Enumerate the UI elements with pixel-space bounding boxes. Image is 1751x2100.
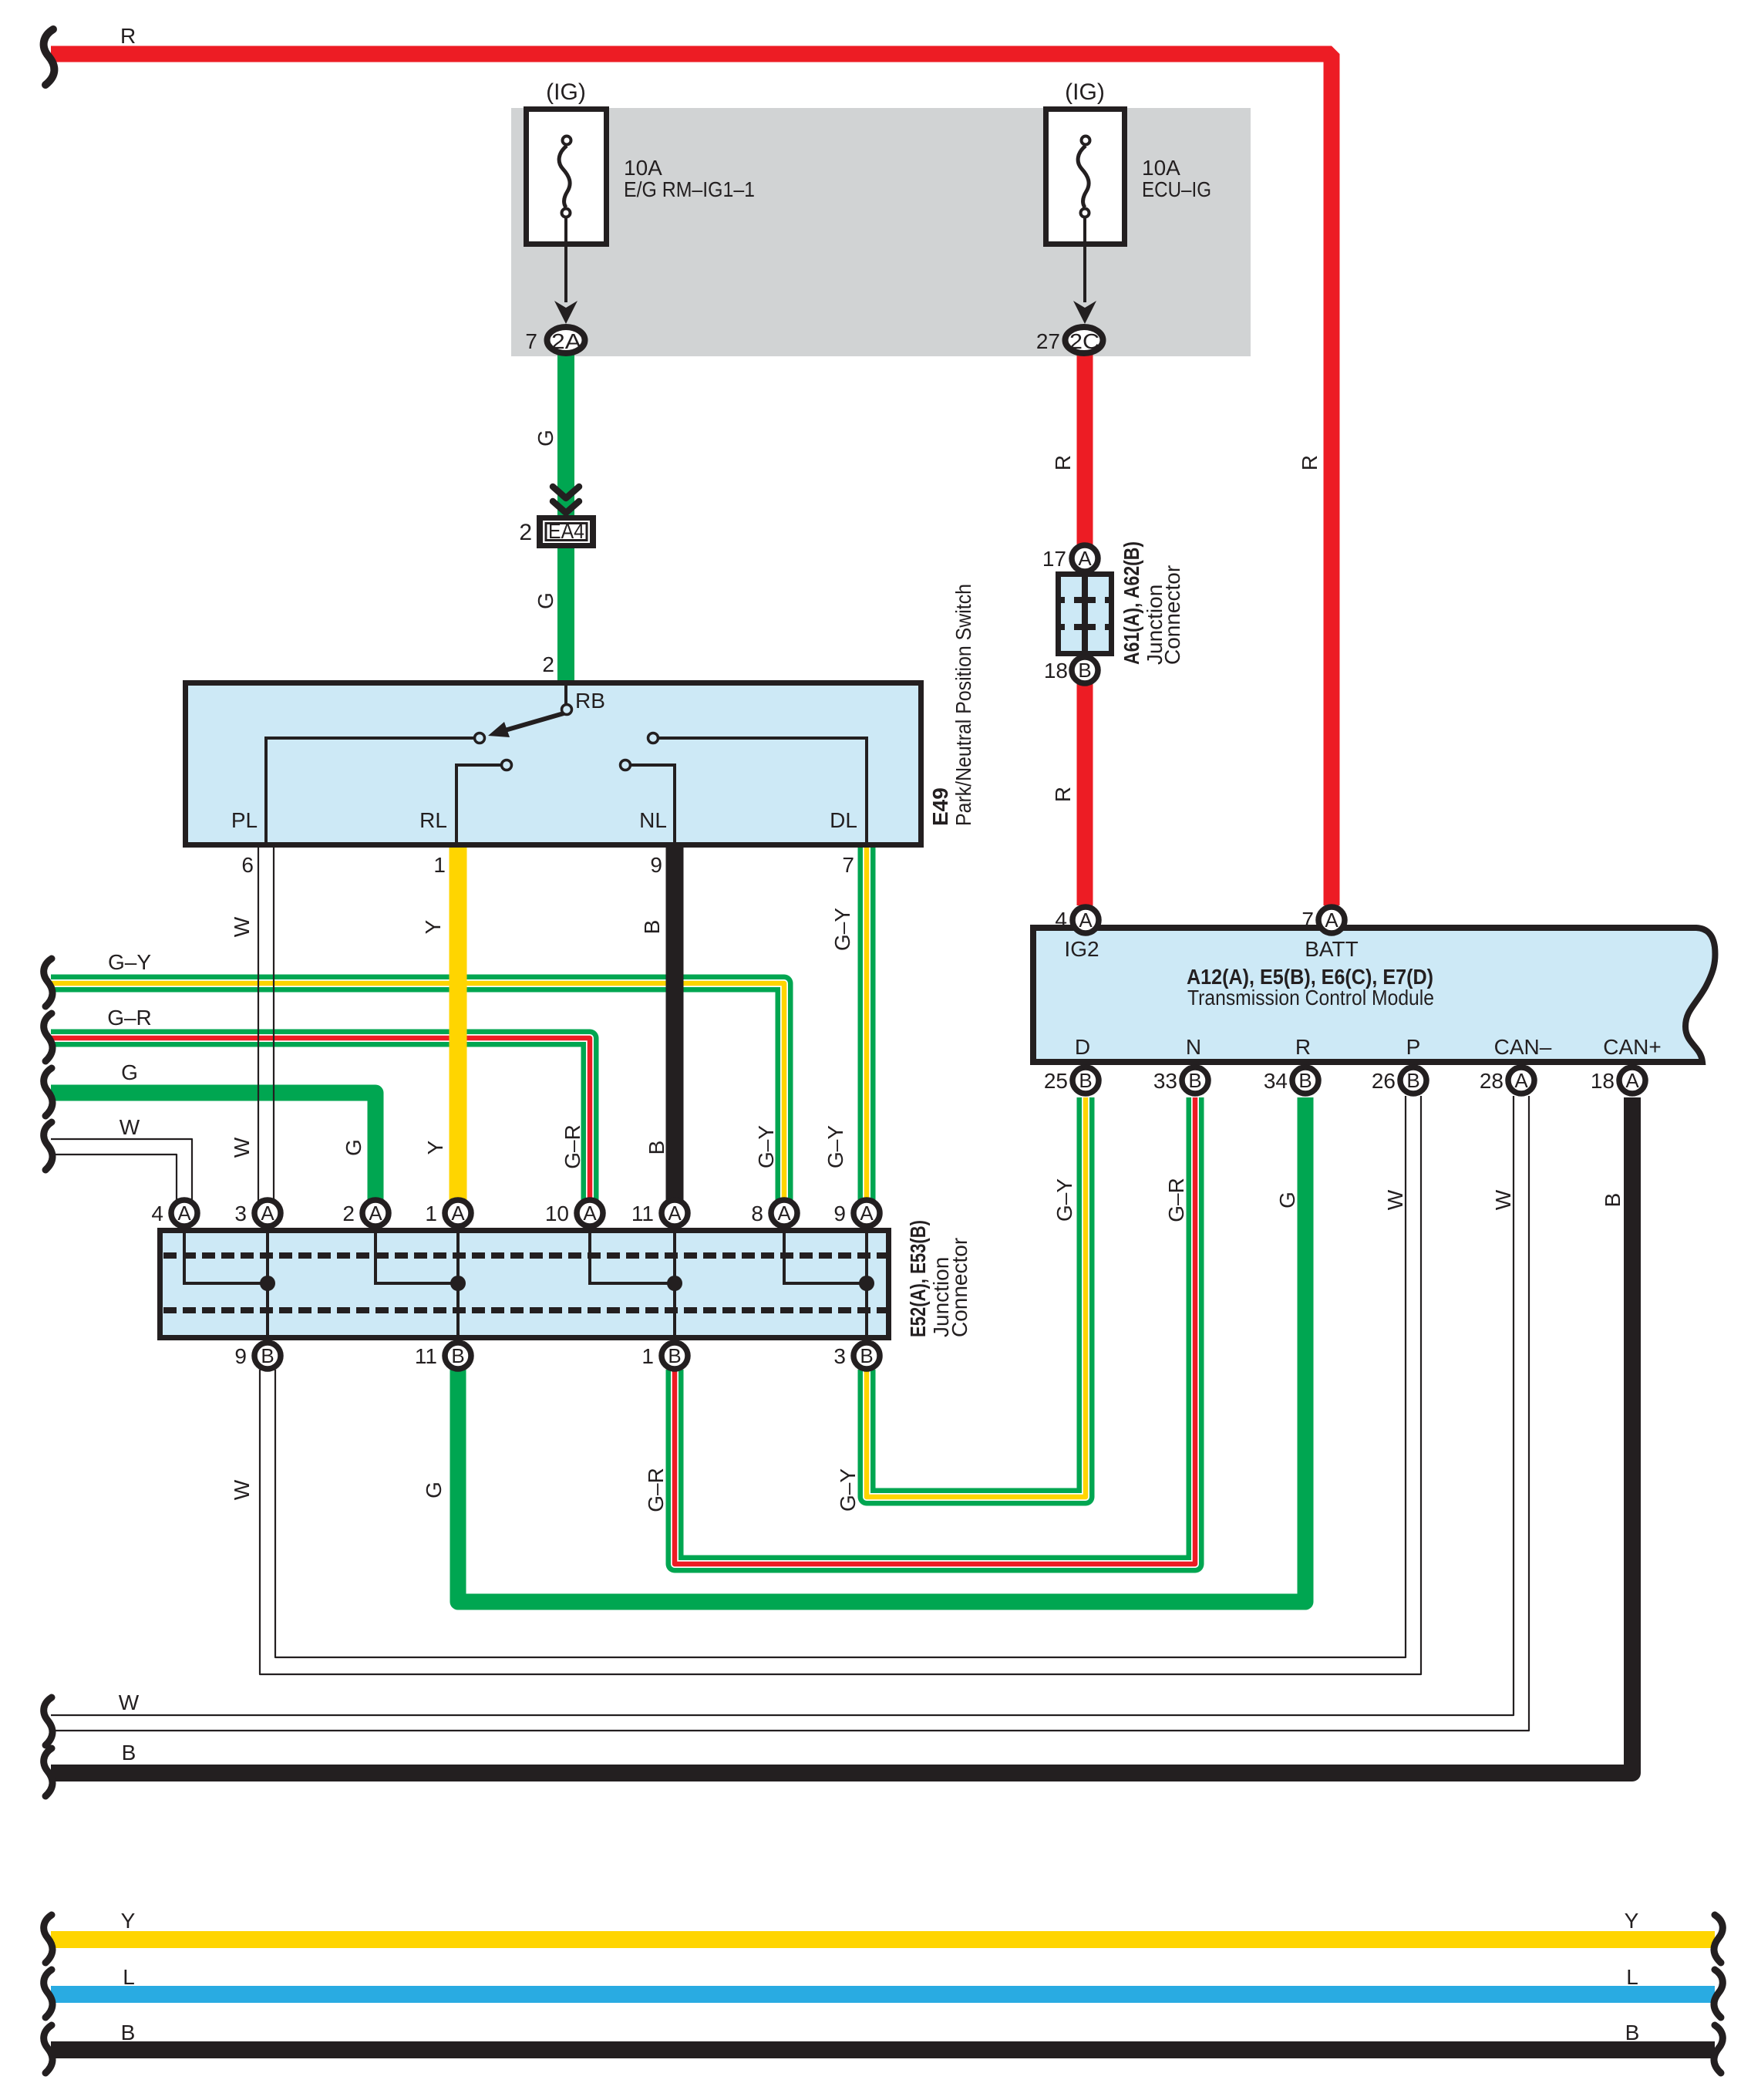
svg-text:33: 33 — [1153, 1069, 1177, 1093]
svg-text:26: 26 — [1372, 1069, 1396, 1093]
E52 junction dot (1A/11B) — [450, 1276, 466, 1291]
fuse 2 lead wire down — [1083, 217, 1086, 302]
Park/Neutral Position Switch E49 box — [186, 683, 921, 845]
svg-text:11: 11 — [631, 1202, 654, 1225]
wire W (harness to E52 pin 4A) — [51, 1139, 192, 1202]
pin 1 A (E52 top) — [445, 1200, 471, 1226]
E52 internal link pin 4A to junction — [184, 1233, 268, 1283]
svg-text:A: A — [777, 1202, 791, 1225]
break symbol, wire G left — [44, 1068, 52, 1116]
svg-text:A: A — [860, 1202, 874, 1225]
connector EA4 body — [537, 515, 596, 548]
svg-text:A: A — [668, 1202, 682, 1225]
wire G (harness to E52 pin 2A) — [51, 1093, 375, 1202]
svg-text:A: A — [1625, 1069, 1639, 1092]
svg-text:B: B — [261, 1344, 274, 1367]
svg-text:RL: RL — [419, 808, 447, 832]
A61 internal horizontal divider 2 — [1057, 624, 1113, 630]
svg-text:EA4: EA4 — [548, 519, 584, 543]
svg-text:RB: RB — [575, 689, 605, 713]
E52 junction dot (3A/9B) — [260, 1276, 275, 1291]
svg-text:E49: E49 — [928, 787, 952, 826]
svg-text:7: 7 — [842, 853, 854, 877]
E49 switch movable arm — [505, 713, 564, 730]
fuse 1 top terminal circle — [563, 137, 571, 145]
pin 9 B (E52 bottom) — [254, 1343, 281, 1369]
pin 9 A (E52 top) — [854, 1200, 880, 1226]
svg-text:G–Y: G–Y — [823, 1125, 847, 1168]
A61 internal horizontal divider 1 — [1057, 597, 1113, 603]
svg-text:(IG): (IG) — [1065, 79, 1105, 105]
svg-text:B: B — [1625, 2021, 1640, 2044]
svg-text:R: R — [1051, 455, 1075, 470]
svg-text:7: 7 — [525, 329, 537, 353]
E52 internal link pin 2A to junction — [375, 1233, 458, 1283]
svg-text:A: A — [583, 1202, 597, 1225]
svg-text:R: R — [120, 24, 136, 48]
svg-text:17: 17 — [1042, 547, 1066, 571]
svg-text:A: A — [1079, 908, 1093, 932]
svg-text:A: A — [261, 1202, 274, 1225]
pin 28 A (TCM CAN-) — [1508, 1067, 1534, 1094]
fuse 2 element S-curve — [1078, 146, 1089, 207]
fuse 10A E/G RM-IG1-1 body — [527, 110, 607, 244]
E52 internal wire pin 9A to pin 3B — [865, 1233, 868, 1337]
E52 internal bus dashed line upper — [163, 1252, 888, 1259]
pin 7 A (TCM BATT) — [1318, 907, 1345, 933]
fuse/relay block (gray) — [511, 108, 1251, 356]
fuse 10A ECU-IG body — [1046, 110, 1125, 244]
wire W (E52 pin 9B to TCM pin 26B) — [260, 1096, 1421, 1674]
svg-text:W: W — [1383, 1189, 1407, 1210]
svg-text:IG2: IG2 — [1064, 937, 1099, 961]
svg-text:2: 2 — [342, 1202, 355, 1225]
svg-text:B: B — [1188, 1069, 1201, 1092]
pin 8 A (E52 top) — [771, 1200, 797, 1226]
svg-text:Park/Neutral Position Switch: Park/Neutral Position Switch — [951, 584, 975, 826]
svg-text:R: R — [1298, 455, 1322, 470]
break symbol, bus L right — [1714, 1970, 1722, 2017]
pin 3 B (E52 bottom) — [854, 1343, 880, 1369]
svg-text:L: L — [123, 1965, 135, 1989]
svg-text:B: B — [451, 1344, 464, 1367]
svg-text:A: A — [451, 1202, 465, 1225]
pin 10 A (E52 top) — [577, 1200, 603, 1226]
pin 4 A (E52 top) — [171, 1200, 197, 1226]
wire B (TCM pin 18A to harness, CAN+) — [51, 1097, 1632, 1773]
E52 junction dot (9A/3B) — [859, 1276, 874, 1291]
svg-text:1: 1 — [433, 853, 446, 877]
E49 switch DL contact circle — [648, 733, 658, 743]
pin 11 A (E52 top) — [662, 1200, 688, 1226]
svg-text:B: B — [860, 1344, 873, 1367]
svg-text:1: 1 — [641, 1344, 654, 1368]
E49 switch contact wiring: RB stub — [564, 686, 567, 704]
svg-text:G–Y: G–Y — [108, 950, 151, 974]
svg-text:ECU–IG: ECU–IG — [1142, 177, 1211, 201]
break symbol, bus B left — [44, 2025, 52, 2073]
splice chevrons above EA4 — [553, 487, 579, 513]
svg-text:18: 18 — [1591, 1069, 1615, 1093]
E52 junction dot (11A/1B) — [667, 1276, 682, 1291]
svg-text:B: B — [668, 1344, 681, 1367]
svg-text:Y: Y — [121, 1909, 136, 1933]
svg-text:4: 4 — [151, 1202, 163, 1225]
svg-text:25: 25 — [1044, 1069, 1068, 1093]
svg-text:E52(A), E53(B): E52(A), E53(B) — [906, 1220, 930, 1337]
svg-text:Connector: Connector — [948, 1238, 971, 1337]
wire G (connector EA4 to E49 pin 2) — [557, 548, 574, 683]
E49 switch PL contact circle — [475, 733, 485, 743]
svg-text:27: 27 — [1036, 329, 1060, 353]
E52 internal link pin 8A to junction — [784, 1233, 867, 1283]
svg-text:G: G — [121, 1060, 138, 1084]
svg-text:(IG): (IG) — [546, 79, 586, 105]
pin 34 B (TCM R) — [1292, 1067, 1318, 1094]
break symbol, bus Y right — [1714, 1915, 1722, 1963]
svg-text:B: B — [1078, 659, 1091, 682]
svg-text:A: A — [369, 1202, 382, 1225]
fuse 2 bottom terminal circle — [1081, 209, 1089, 217]
svg-text:D: D — [1075, 1035, 1090, 1059]
svg-text:P: P — [1406, 1035, 1421, 1059]
svg-text:N: N — [1186, 1035, 1201, 1059]
wire R (main battery feed, top) — [51, 54, 1332, 905]
pin 4 A (TCM IG2) — [1072, 907, 1099, 933]
svg-text:B: B — [1298, 1069, 1312, 1092]
pin 11 B (E52 bottom) — [445, 1343, 471, 1369]
wire G-R (E52 pin 1B to TCM pin 33B) — [675, 1097, 1195, 1564]
wire G-Y (E52 pin 3B to TCM pin 25B) — [867, 1097, 1086, 1497]
svg-text:W: W — [230, 1479, 254, 1500]
svg-text:7: 7 — [1301, 908, 1314, 932]
svg-text:E/G RM–IG1–1: E/G RM–IG1–1 — [624, 177, 755, 201]
svg-text:Y: Y — [1625, 1909, 1639, 1933]
svg-text:B: B — [645, 1141, 668, 1155]
E52 internal link pin 10A to junction — [590, 1233, 675, 1283]
svg-text:CAN–: CAN– — [1494, 1035, 1552, 1059]
break symbol, wire G-R left — [44, 1013, 52, 1061]
bus wire L (bottom) — [51, 1986, 1715, 2003]
pin 3 A (E52 top) — [254, 1200, 281, 1226]
wire R (junction A61 pin 18 to TCM pin 4A IG2) — [1077, 684, 1093, 905]
svg-text:CAN+: CAN+ — [1603, 1035, 1661, 1059]
svg-text:W: W — [230, 916, 254, 937]
E52 internal wire pin 11A to pin 1B — [673, 1233, 676, 1337]
svg-text:G–Y: G–Y — [1052, 1178, 1076, 1222]
svg-text:Y: Y — [423, 1140, 447, 1154]
wire W (E49 pin 6 PL to E52 pin 3A) — [258, 844, 274, 1202]
svg-text:9: 9 — [833, 1202, 846, 1225]
svg-text:18: 18 — [1044, 659, 1068, 683]
svg-text:10A: 10A — [1142, 156, 1180, 180]
svg-text:G: G — [342, 1139, 365, 1156]
fuse 1 bottom terminal circle — [562, 209, 571, 217]
pin 27 (2C) oval connector at fuse block — [1066, 327, 1103, 353]
wire G-R (harness to E52 pin 10A) — [51, 1038, 590, 1202]
svg-text:11: 11 — [415, 1344, 437, 1368]
svg-text:NL: NL — [639, 808, 667, 832]
wire G-Y (harness to E52 pin 8A) — [51, 983, 784, 1202]
wire B (E49 pin 9 NL to E52 pin 11A) — [666, 844, 684, 1202]
svg-text:DL: DL — [830, 808, 857, 832]
svg-text:1: 1 — [425, 1202, 437, 1225]
E49 switch DL contact line — [658, 738, 867, 844]
E49 switch arm arrowhead — [488, 722, 510, 737]
svg-text:G: G — [1275, 1192, 1299, 1208]
svg-text:A: A — [1078, 547, 1092, 570]
pin 1 B (E52 bottom) — [662, 1343, 688, 1369]
wire Y (E49 pin 1 RL to E52 pin 1A) — [450, 844, 467, 1202]
break symbol, bus L left — [44, 1970, 52, 2017]
svg-text:G–R: G–R — [561, 1124, 584, 1169]
svg-text:10A: 10A — [624, 156, 662, 180]
pin 26 B (TCM P) — [1400, 1067, 1426, 1094]
break symbol, wire W lower left — [44, 1697, 52, 1745]
E49 switch NL contact circle — [621, 760, 631, 770]
svg-text:A: A — [177, 1202, 191, 1225]
svg-text:W: W — [1491, 1189, 1515, 1210]
svg-text:B: B — [121, 2021, 136, 2044]
svg-text:G: G — [422, 1481, 446, 1498]
svg-text:L: L — [1626, 1965, 1638, 1989]
svg-text:4: 4 — [1055, 908, 1067, 932]
pin 18 A (TCM CAN+) — [1619, 1067, 1645, 1094]
fuse 1 lead wire down — [564, 217, 567, 302]
bus wire Y (bottom) — [51, 1931, 1715, 1948]
E49 switch PL contact line — [266, 738, 476, 844]
svg-text:B: B — [122, 1741, 136, 1765]
fuse 2 arrowhead to pin 2C — [1073, 301, 1096, 324]
svg-text:G–R: G–R — [107, 1006, 152, 1030]
E52 internal wire pin 1A to pin 11B — [456, 1233, 460, 1337]
svg-text:G–R: G–R — [1164, 1178, 1188, 1222]
svg-text:Connector: Connector — [1160, 565, 1184, 665]
svg-text:Transmission Control Module: Transmission Control Module — [1187, 986, 1434, 1010]
pin 33 B (TCM N) — [1182, 1067, 1208, 1094]
break symbol, bus B right — [1714, 2025, 1722, 2073]
fuse 2 top terminal circle — [1082, 137, 1090, 145]
svg-text:B: B — [640, 920, 664, 935]
svg-text:B: B — [1406, 1069, 1419, 1092]
svg-text:34: 34 — [1264, 1069, 1288, 1093]
svg-text:Y: Y — [421, 919, 445, 934]
svg-text:9: 9 — [650, 853, 662, 877]
svg-text:A: A — [1325, 908, 1339, 932]
svg-text:BATT: BATT — [1305, 937, 1358, 961]
wire W (TCM pin 28A to harness, CAN-) — [51, 1096, 1529, 1731]
bus wire B (bottom) — [51, 2041, 1715, 2058]
E49 switch RB node circle — [562, 705, 572, 715]
pin 2 A (E52 top) — [362, 1200, 389, 1226]
svg-text:2C: 2C — [1069, 329, 1099, 353]
svg-text:2: 2 — [542, 652, 554, 676]
svg-text:B: B — [1601, 1193, 1625, 1208]
E52 internal bus dashed line lower — [163, 1307, 888, 1313]
E49 switch NL contact line — [630, 765, 675, 844]
svg-text:A: A — [1514, 1069, 1528, 1092]
svg-text:R: R — [1295, 1035, 1311, 1059]
E49 switch RL contact line — [456, 765, 502, 844]
svg-text:3: 3 — [234, 1202, 247, 1225]
svg-text:G–Y: G–Y — [836, 1468, 860, 1512]
svg-text:G: G — [534, 430, 557, 447]
Transmission Control Module box (torn right edge) — [1033, 928, 1716, 1062]
svg-text:8: 8 — [751, 1202, 763, 1225]
pin 18 B (A61 junction connector bottom) — [1072, 657, 1098, 683]
E52 internal wire pin 3A to pin 9B — [266, 1233, 269, 1337]
svg-text:R: R — [1051, 787, 1075, 802]
fuse 1 element S-curve — [559, 146, 570, 207]
A61(A)/A62(B) junction connector box — [1059, 575, 1112, 654]
svg-text:2A: 2A — [551, 329, 581, 353]
svg-text:A61(A), A62(B): A61(A), A62(B) — [1120, 541, 1143, 665]
svg-text:PL: PL — [231, 808, 258, 832]
svg-text:W: W — [230, 1137, 254, 1158]
svg-text:3: 3 — [833, 1344, 846, 1368]
break symbol, bus Y left — [44, 1915, 52, 1963]
pin 25 B (TCM D) — [1072, 1067, 1099, 1094]
wire R (fuse ECU-IG 2C to junction A61 pin 17) — [1077, 354, 1093, 544]
svg-text:G–R: G–R — [644, 1468, 668, 1512]
wire G (E52 pin 11B to TCM pin 34B) — [458, 1097, 1305, 1602]
E52(A)/E53(B) junction connector box — [160, 1231, 889, 1338]
chevron stem into EA4 — [564, 511, 568, 518]
svg-text:10: 10 — [545, 1202, 569, 1225]
A61 internal vertical divider — [1082, 574, 1088, 654]
svg-text:2: 2 — [519, 520, 532, 545]
break symbol, wire R top — [44, 29, 55, 85]
svg-text:W: W — [120, 1115, 140, 1139]
svg-text:6: 6 — [241, 853, 254, 877]
wire G-Y (E49 pin 7 DL to E52 pin 9A) — [858, 844, 876, 1202]
svg-text:9: 9 — [234, 1344, 247, 1368]
pin 17 A (A61 junction connector top) — [1072, 545, 1098, 571]
svg-text:G–Y: G–Y — [754, 1125, 778, 1168]
svg-text:28: 28 — [1480, 1069, 1504, 1093]
svg-text:G: G — [534, 592, 557, 609]
E49 switch RL contact circle — [502, 760, 512, 770]
fuse 1 arrowhead to pin 2A — [554, 301, 577, 324]
pin 7 (2A) oval connector at fuse block — [547, 327, 585, 353]
svg-text:G–Y: G–Y — [830, 908, 854, 951]
wire G (fuse 2A to connector EA4) — [557, 354, 574, 515]
break symbol, wire W left — [44, 1122, 52, 1170]
break symbol, wire B lower left — [44, 1748, 52, 1796]
svg-text:W: W — [119, 1690, 140, 1714]
svg-text:B: B — [1079, 1069, 1092, 1092]
break symbol, wire G-Y left — [44, 959, 52, 1006]
